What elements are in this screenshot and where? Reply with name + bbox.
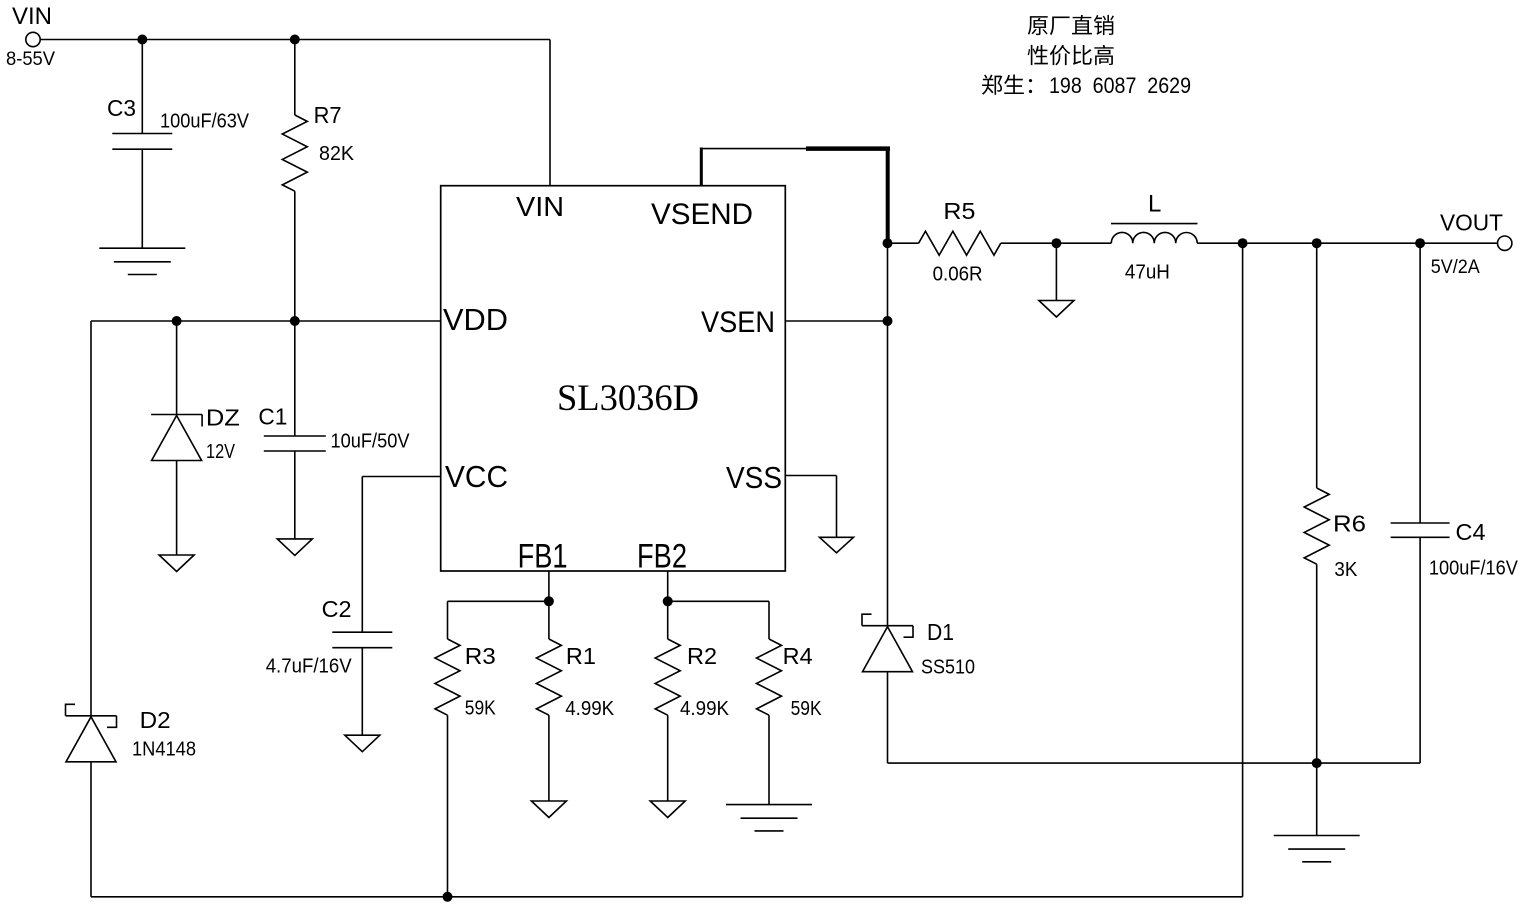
- svg-text:59K: 59K: [791, 698, 823, 720]
- svg-text:VCC: VCC: [445, 459, 508, 494]
- svg-text:12V: 12V: [206, 441, 236, 463]
- svg-text:VOUT: VOUT: [1440, 210, 1503, 236]
- svg-text:C2: C2: [322, 596, 352, 622]
- svg-text:4.7uF/16V: 4.7uF/16V: [266, 655, 353, 677]
- svg-text:R1: R1: [566, 643, 596, 669]
- svg-text:47uH: 47uH: [1125, 261, 1170, 283]
- svg-text:FB1: FB1: [518, 538, 568, 576]
- svg-text:SL3036D: SL3036D: [557, 378, 699, 419]
- svg-text:8-55V: 8-55V: [6, 49, 55, 70]
- svg-text:D1: D1: [927, 619, 954, 645]
- svg-text:R5: R5: [943, 198, 975, 224]
- svg-text:C1: C1: [258, 404, 287, 430]
- svg-text:R4: R4: [783, 643, 813, 669]
- svg-text:4.99K: 4.99K: [565, 698, 615, 720]
- svg-text:100uF/63V: 100uF/63V: [160, 111, 250, 133]
- svg-text:R6: R6: [1333, 511, 1366, 537]
- svg-text:DZ: DZ: [206, 404, 240, 430]
- svg-text:VIN: VIN: [12, 3, 52, 30]
- svg-text:5V/2A: 5V/2A: [1431, 257, 1480, 278]
- svg-text:100uF/16V: 100uF/16V: [1429, 558, 1519, 580]
- svg-text:VSS: VSS: [726, 460, 782, 495]
- svg-text:C4: C4: [1456, 519, 1486, 545]
- svg-text:4.99K: 4.99K: [680, 698, 730, 720]
- svg-text:0.06R: 0.06R: [933, 264, 983, 286]
- svg-text:SS510: SS510: [921, 657, 975, 679]
- svg-text:C3: C3: [107, 95, 136, 121]
- svg-text:L: L: [1148, 191, 1161, 218]
- svg-text:VIN: VIN: [516, 191, 564, 222]
- svg-text:10uF/50V: 10uF/50V: [331, 431, 411, 453]
- svg-text:D2: D2: [140, 707, 171, 733]
- svg-text:R3: R3: [465, 643, 496, 669]
- svg-text:198 6087 2629: 198 6087 2629: [1049, 73, 1191, 98]
- svg-text:3K: 3K: [1334, 559, 1358, 581]
- svg-text:82K: 82K: [319, 143, 355, 165]
- svg-text:R7: R7: [314, 102, 342, 128]
- svg-text:1N4148: 1N4148: [132, 739, 196, 761]
- svg-text:FB2: FB2: [637, 538, 687, 576]
- svg-text:59K: 59K: [465, 698, 497, 720]
- svg-text:VSEND: VSEND: [651, 198, 753, 231]
- svg-text:R2: R2: [687, 643, 717, 669]
- svg-text:VSEN: VSEN: [701, 306, 775, 339]
- svg-text:VDD: VDD: [443, 302, 508, 337]
